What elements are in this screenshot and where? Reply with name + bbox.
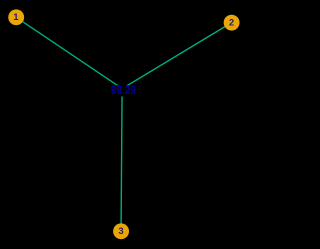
svg-text:2: 2 <box>229 17 234 27</box>
svg-text:3: 3 <box>118 226 123 236</box>
wire edge 1-center <box>16 17 122 88</box>
node 1 <box>8 9 24 25</box>
node 3 <box>113 223 129 239</box>
node 2 <box>224 15 240 31</box>
label 99.29 bbox <box>108 85 138 96</box>
wire edge 2-center <box>122 23 232 89</box>
svg-text:99.29: 99.29 <box>111 84 137 97</box>
svg-text:1: 1 <box>13 12 18 22</box>
wire edge center-3 <box>121 89 122 232</box>
